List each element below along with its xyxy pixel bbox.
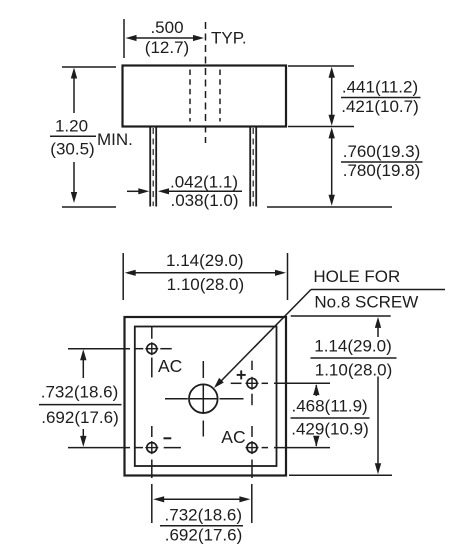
svg-text:1.14(29.0): 1.14(29.0) bbox=[166, 251, 244, 270]
svg-text:.760(19.3): .760(19.3) bbox=[343, 142, 421, 161]
body outline bbox=[123, 66, 287, 127]
arrowhead left bbox=[125, 270, 136, 276]
arrowhead down bbox=[329, 195, 335, 206]
left dim extensions bbox=[68, 348, 130, 350]
leader horizontal under HOLE FOR bbox=[311, 289, 445, 291]
bottom dim extensions bbox=[151, 484, 153, 523]
hidden dashed line right bbox=[219, 70, 221, 122]
pin AC bottom-right bbox=[246, 426, 269, 478]
arrowhead down bbox=[80, 436, 86, 447]
hole crosshair vertical bbox=[202, 361, 204, 378]
svg-text:.780(19.8): .780(19.8) bbox=[343, 161, 421, 180]
dim .042 fraction bar bbox=[167, 190, 242, 192]
arrowhead left bbox=[153, 496, 164, 502]
arrowhead down bbox=[375, 463, 381, 474]
svg-text:1.14(29.0): 1.14(29.0) bbox=[314, 337, 392, 356]
svg-text:.468(11.9): .468(11.9) bbox=[291, 397, 367, 416]
top dim line bbox=[135, 272, 276, 274]
arrowhead up bbox=[329, 127, 335, 138]
left pin centerline bbox=[152, 128, 154, 206]
dim .468 line lower bbox=[315, 436, 317, 446]
right big dim line bbox=[377, 327, 379, 337]
pin plus right bbox=[231, 361, 268, 406]
hidden dashed line left bbox=[189, 70, 191, 122]
arrowhead right bbox=[193, 35, 204, 41]
left dim line upper bbox=[82, 359, 84, 378]
left pin bbox=[149, 127, 151, 207]
svg-text:.441(11.2): .441(11.2) bbox=[342, 78, 418, 97]
svg-text:(12.7): (12.7) bbox=[145, 38, 189, 57]
dim .042 left arrow line bbox=[127, 190, 139, 192]
arrowhead up bbox=[329, 67, 335, 78]
svg-text:AC: AC bbox=[158, 356, 182, 376]
svg-text:(30.5): (30.5) bbox=[50, 140, 94, 159]
bottom dim line bbox=[163, 498, 241, 500]
plus sign near pin bbox=[237, 374, 246, 376]
dim .760 line bbox=[331, 137, 333, 196]
svg-text:HOLE FOR: HOLE FOR bbox=[313, 267, 400, 286]
arrowhead left-pointing bbox=[158, 188, 169, 194]
outer square bbox=[125, 317, 287, 476]
fraction bars bbox=[50, 135, 96, 137]
svg-text:AC: AC bbox=[221, 427, 245, 447]
arrowhead right bbox=[239, 496, 250, 502]
svg-text:.732(18.6): .732(18.6) bbox=[165, 506, 243, 525]
left dim line lower bbox=[82, 429, 84, 438]
right pin bbox=[249, 127, 251, 207]
top dim extensions of bottom view bbox=[122, 253, 124, 300]
svg-text:.692(17.6): .692(17.6) bbox=[165, 526, 243, 545]
svg-text:.042(1.1): .042(1.1) bbox=[170, 173, 238, 192]
dim .441 top extension bbox=[288, 65, 354, 67]
svg-text:1.10(28.0): 1.10(28.0) bbox=[167, 275, 245, 294]
dim .500 extension line bbox=[123, 19, 125, 58]
hole crosshair horizontal bbox=[165, 398, 188, 400]
minus sign bottom-left pin bbox=[164, 437, 172, 439]
center hole circle bbox=[189, 384, 218, 413]
arrowhead right bbox=[275, 270, 286, 276]
svg-text:.732(18.6): .732(18.6) bbox=[41, 383, 119, 402]
dim .468 line upper bbox=[315, 385, 317, 396]
svg-text:.038(1.0): .038(1.0) bbox=[170, 191, 238, 210]
svg-text:TYP.: TYP. bbox=[211, 29, 247, 48]
pin AC top-left bbox=[135, 327, 172, 378]
arrowhead down bbox=[329, 115, 335, 126]
dim 1.20 bottom extension bbox=[62, 206, 116, 208]
extension from AC pin bbox=[274, 447, 330, 449]
arrowhead left bbox=[126, 35, 137, 41]
svg-text:.500: .500 bbox=[150, 18, 183, 37]
right big dim bottom extension bbox=[289, 474, 392, 476]
dim .500 line bbox=[135, 37, 194, 39]
extension from plus pin bbox=[274, 382, 330, 384]
svg-text:No.8 SCREW: No.8 SCREW bbox=[314, 293, 418, 312]
leader arrowhead bbox=[214, 378, 224, 388]
leader line diagonal bbox=[220, 290, 312, 383]
arrowhead right-pointing bbox=[138, 188, 149, 194]
svg-text:.692(17.6): .692(17.6) bbox=[41, 408, 119, 427]
inner square bbox=[135, 327, 277, 467]
svg-text:MIN.: MIN. bbox=[97, 130, 133, 149]
svg-text:.421(10.7): .421(10.7) bbox=[341, 97, 419, 116]
right pin centerline bbox=[252, 128, 254, 206]
svg-text:.429(10.9): .429(10.9) bbox=[291, 420, 369, 439]
dim 1.20 line upper bbox=[73, 77, 75, 113]
dim .441 middle extension bbox=[288, 126, 354, 128]
arrowhead up bbox=[313, 384, 319, 395]
dim .760 bottom extension bbox=[267, 206, 392, 208]
dim .441 line bbox=[331, 77, 333, 116]
svg-text:1.10(28.0): 1.10(28.0) bbox=[315, 361, 393, 380]
arrowhead up bbox=[80, 349, 86, 360]
arrowhead down bbox=[313, 436, 319, 447]
center dashed line bbox=[205, 22, 207, 143]
svg-text:1.20: 1.20 bbox=[55, 117, 88, 136]
arrowhead up bbox=[375, 317, 381, 328]
arrowhead down bbox=[71, 192, 77, 203]
arrowhead up bbox=[71, 68, 77, 79]
dim 1.20 line lower bbox=[73, 162, 75, 194]
pin minus bottom-left bbox=[135, 426, 181, 478]
dim 1.20 top extension bbox=[62, 66, 116, 68]
extension line under No.8 SCREW bbox=[291, 315, 391, 317]
